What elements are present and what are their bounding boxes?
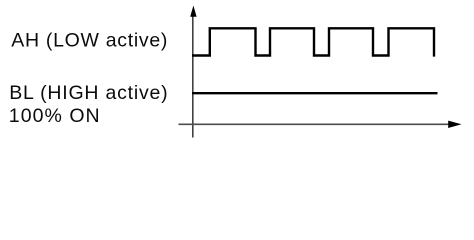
svg-text:BL (HIGH active): BL (HIGH active) xyxy=(9,82,168,104)
waveform BL (HIGH active) 100% ON xyxy=(192,92,438,94)
vertical axis xyxy=(192,14,194,138)
vertical axis arrowhead xyxy=(190,6,196,17)
horizontal axis arrowhead xyxy=(448,121,461,128)
horizontal axis (time) xyxy=(179,123,450,125)
svg-text:100% ON: 100% ON xyxy=(9,105,101,127)
waveform AH (LOW active) xyxy=(192,28,434,56)
svg-text:AH (LOW active): AH (LOW active) xyxy=(11,29,168,51)
